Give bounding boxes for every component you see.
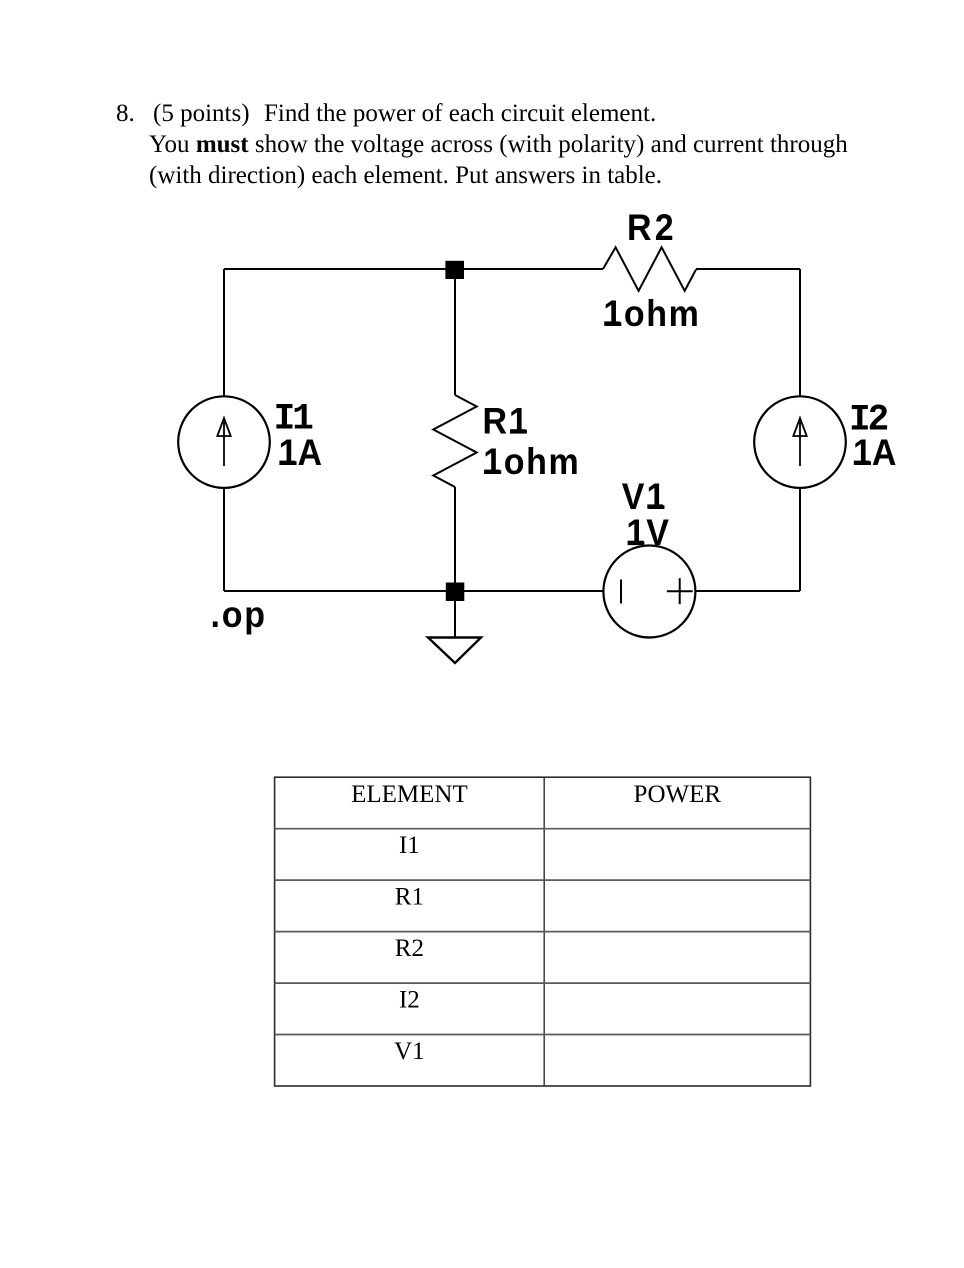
wire top-right from R2 to right corner (696, 268, 800, 270)
wire middle vertical upper (454, 269, 456, 395)
svg-text:1ohm: 1ohm (603, 292, 700, 334)
wire bottom-right from V1 to right corner (696, 590, 801, 592)
voltage source V1 plus terminal (667, 578, 693, 604)
svg-text:ELEMENT: ELEMENT (351, 781, 468, 808)
svg-text:R1: R1 (395, 884, 424, 911)
svg-text:You must show the voltage acro: You must show the voltage across (with p… (149, 131, 848, 158)
voltage source V1 circle (603, 546, 695, 638)
label V1 name (622, 475, 668, 517)
svg-text:V1: V1 (394, 1038, 425, 1065)
label R2 value 1ohm (603, 292, 700, 334)
label R1 name (483, 400, 530, 442)
svg-text:8.: 8. (116, 100, 135, 127)
labels: schematic component names and values (211, 206, 897, 635)
current source I1 arrow (217, 418, 230, 466)
svg-text:1A: 1A (279, 432, 322, 474)
ground symbol triangle (428, 638, 481, 664)
svg-text:R2: R2 (627, 206, 677, 248)
current source I1 circle (178, 396, 270, 488)
table column divider (543, 777, 545, 1086)
svg-text:I2: I2 (399, 987, 420, 1014)
node junction bottom (square) (446, 583, 465, 602)
resistor R1 zigzag (433, 395, 476, 487)
svg-text:.op: .op (211, 594, 267, 636)
svg-text:1A: 1A (853, 432, 896, 474)
voltage source V1 minus terminal (620, 580, 622, 604)
wire top-left from left corner through node to R2 (224, 268, 603, 270)
svg-text:Find the power of each circuit: Find the power of each circuit element. (264, 100, 656, 127)
current source I2 arrow (793, 418, 806, 466)
wire right vertical upper (799, 269, 801, 396)
problem statement line 1 number (116, 100, 656, 127)
resistor R2 zigzag (603, 247, 696, 291)
wire left vertical lower (223, 488, 225, 591)
table grid outer border (275, 777, 811, 1086)
node junction top (square) (445, 261, 464, 279)
svg-text:I1: I1 (399, 832, 420, 859)
svg-text:1V: 1V (626, 512, 670, 554)
wire right vertical lower (799, 488, 801, 591)
table text (351, 781, 721, 1065)
svg-text:(5 points): (5 points) (153, 100, 250, 127)
label I2 value 1A (853, 432, 896, 474)
label V1 value 1V (626, 512, 670, 554)
wire left vertical upper (223, 269, 225, 396)
label R1 value 1ohm (483, 441, 580, 483)
ground stem wire (454, 601, 456, 638)
current source I2 circle (754, 396, 846, 488)
svg-text:(with direction) each element.: (with direction) each element. Put answe… (149, 162, 662, 189)
label I1 value 1A (279, 432, 322, 474)
svg-text:R1: R1 (483, 400, 530, 442)
svg-text:1ohm: 1ohm (483, 441, 580, 483)
svg-text:R2: R2 (395, 935, 424, 962)
wire middle vertical lower (454, 487, 456, 591)
table row lines (275, 829, 811, 1035)
svg-text:POWER: POWER (634, 781, 722, 808)
wire bottom-left from left corner through ground node to V1 (224, 590, 603, 592)
